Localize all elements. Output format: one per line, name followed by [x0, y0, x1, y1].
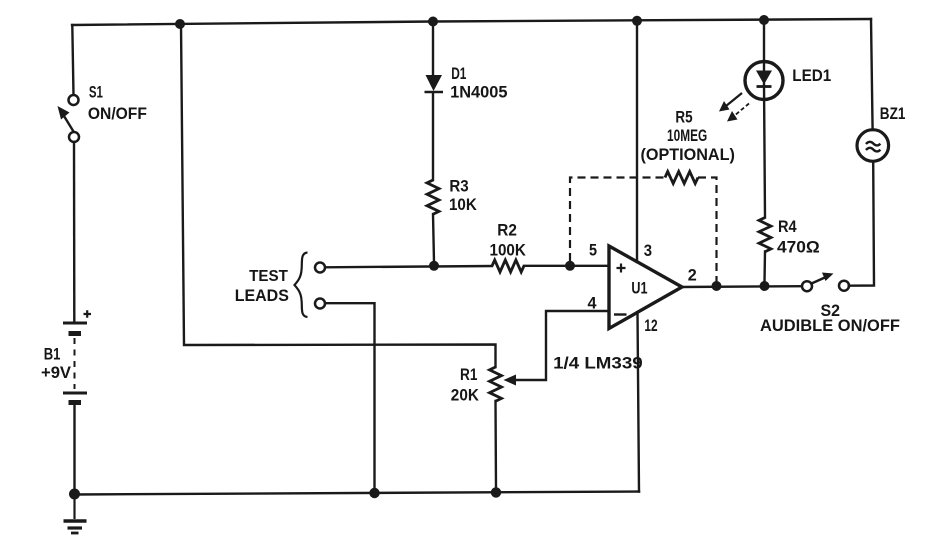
svg-text:LEADS: LEADS — [235, 287, 289, 305]
battery B1 — [63, 323, 87, 403]
wire BZ1 to top rail — [871, 19, 873, 130]
op-amp + input marker — [617, 264, 626, 273]
svg-text:R1: R1 — [460, 365, 477, 384]
switch S1 blade arrow — [64, 116, 74, 132]
svg-text:R4: R4 — [778, 217, 797, 236]
wire dashed R5 left leg — [570, 178, 665, 262]
svg-text:470Ω: 470Ω — [777, 238, 820, 257]
svg-text:1/4 LM339: 1/4 LM339 — [553, 354, 643, 373]
svg-text:R3: R3 — [449, 177, 468, 196]
resistor R1 — [490, 367, 502, 401]
switch S1 bottom contact — [69, 132, 79, 142]
node R5 / output junction — [712, 281, 722, 291]
node test lead 2 / ground rail junction — [369, 488, 379, 498]
svg-text:10K: 10K — [449, 195, 477, 214]
wire S1 to battery B1 — [73, 142, 76, 321]
svg-text:10MEG: 10MEG — [667, 126, 707, 145]
test lead terminal 2 — [315, 299, 325, 309]
svg-text:(OPTIONAL): (OPTIONAL) — [641, 145, 735, 164]
wire U1 pin 4 to R1 wiper — [511, 311, 609, 380]
svg-text:1N4005: 1N4005 — [450, 83, 507, 102]
wire top V+ rail — [72, 19, 871, 25]
test lead terminal 1 — [315, 263, 325, 273]
wire S2 to BZ1 — [849, 162, 874, 286]
svg-text:R5: R5 — [675, 108, 692, 127]
wire D1 to R3 — [432, 93, 434, 180]
LED1 — [745, 62, 783, 100]
resistor R4 — [759, 218, 771, 252]
wire top rail to D1 — [432, 22, 434, 75]
wire U1 pin 12 to ground rail — [638, 313, 640, 492]
wire U1 pin 3 from top rail — [636, 21, 638, 262]
resistor R2 — [492, 260, 524, 272]
buzzer BZ1 — [857, 130, 889, 162]
ground — [64, 497, 87, 533]
node top rail / LED1 branch — [759, 15, 769, 25]
node U1 power pin 3 on top rail — [632, 16, 642, 26]
svg-text:20K: 20K — [451, 386, 480, 405]
svg-text:LED1: LED1 — [792, 66, 831, 85]
node top rail / D1 branch junction — [428, 17, 438, 27]
switch S2 right contact — [839, 281, 849, 291]
svg-text:12: 12 — [644, 316, 657, 335]
op-amp U1 — [609, 246, 682, 329]
wire bottom ground rail — [75, 492, 640, 495]
svg-text:4: 4 — [588, 294, 598, 313]
wire R1 to ground rail — [494, 401, 497, 488]
svg-text:R2: R2 — [497, 221, 517, 240]
svg-text:U1: U1 — [631, 279, 647, 298]
svg-text:TEST: TEST — [249, 268, 288, 285]
svg-text:S1: S1 — [89, 83, 103, 102]
svg-text:5: 5 — [589, 241, 597, 260]
op-amp - input marker — [614, 313, 627, 315]
resistor R3 — [427, 180, 439, 214]
switch S1 top contact — [69, 95, 79, 105]
node output / R4 junction — [760, 281, 770, 291]
wire U1 output pin 2 — [682, 285, 803, 288]
node R1 / ground rail junction — [491, 487, 501, 497]
wire top rail to LED1 — [763, 20, 765, 70]
wire test lead 2 to ground rail — [325, 303, 374, 489]
label + battery polarity — [84, 310, 92, 317]
switch S2 left contact — [802, 281, 812, 291]
wire R4 to output node — [763, 252, 766, 283]
node test-lead / R3 junction — [429, 261, 439, 271]
svg-text:ON/OFF: ON/OFF — [88, 104, 147, 123]
wire test lead 1 to R2 — [325, 266, 492, 267]
svg-text:BZ1: BZ1 — [880, 104, 906, 123]
wire V+ branch down to R1 top — [181, 24, 496, 367]
node bottom-left ground junction — [69, 489, 80, 500]
switch S2 blade arrow — [812, 277, 827, 284]
wire R2 to U1 pin 5 — [524, 265, 609, 267]
wire R3 to test-lead node — [433, 214, 434, 262]
wire top rail down to S1 — [72, 25, 73, 95]
node top rail / S1 branch junction — [175, 19, 185, 29]
resistor R5 — [665, 172, 698, 184]
brace test leads — [295, 253, 308, 318]
wire B1 to ground node — [73, 405, 75, 490]
svg-text:+9V: +9V — [41, 363, 72, 382]
svg-text:B1: B1 — [44, 345, 61, 364]
diode D1 — [425, 75, 444, 92]
svg-text:AUDIBLE ON/OFF: AUDIBLE ON/OFF — [760, 316, 900, 335]
svg-text:2: 2 — [688, 266, 697, 285]
LED1 emission arrows — [719, 93, 749, 122]
svg-text:D1: D1 — [451, 64, 466, 83]
node pin5 / R5 dashed junction — [565, 261, 575, 271]
svg-text:100K: 100K — [490, 241, 527, 260]
R1 wiper arrowhead — [504, 375, 517, 386]
svg-text:3: 3 — [644, 241, 652, 260]
wire dashed R5 right leg — [698, 178, 717, 283]
wire LED1 to R4 — [764, 84, 765, 218]
